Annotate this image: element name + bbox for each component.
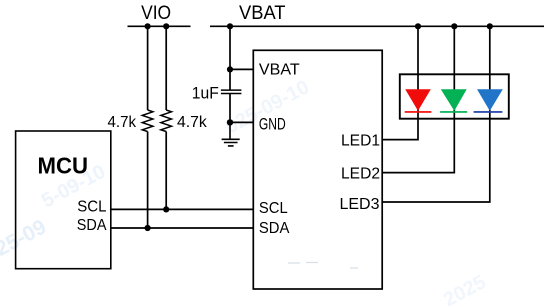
wire LED2 bbox=[382, 26, 454, 172]
LED D1 red bbox=[405, 89, 431, 111]
LED D2 green bbox=[441, 89, 467, 111]
svg-text:LED2: LED2 bbox=[341, 166, 380, 183]
wire R1 top (x=147) bbox=[147, 26, 149, 110]
node VBAT-LED2 bbox=[451, 23, 457, 29]
svg-text:4.7k: 4.7k bbox=[177, 114, 208, 131]
svg-text:GND: GND bbox=[259, 116, 286, 134]
capacitor C1 plates bbox=[221, 90, 242, 93]
wire VBAT pin bbox=[230, 68, 253, 70]
wire SCL bus bbox=[111, 208, 254, 210]
op-amp U1 (LED driver IC) box bbox=[253, 50, 382, 289]
MCU box bbox=[16, 131, 111, 269]
wire LED3 bbox=[382, 26, 490, 202]
svg-text:MCU: MCU bbox=[38, 152, 89, 178]
node VIO-R2 bbox=[163, 23, 169, 29]
ground bbox=[222, 122, 240, 145]
svg-text:SDA: SDA bbox=[259, 220, 290, 237]
wire cap bottom to gnd node bbox=[229, 94, 231, 123]
wire R2 top (x=165) bbox=[165, 26, 167, 110]
node VBAT pin bbox=[227, 66, 233, 72]
wire R2 bottom to SCL bbox=[165, 132, 167, 210]
LED module box bbox=[400, 74, 509, 118]
svg-text:LED1: LED1 bbox=[341, 132, 380, 149]
wire VIO rail bbox=[128, 25, 191, 27]
LED D3 blue bbox=[477, 89, 503, 111]
svg-text:VBAT: VBAT bbox=[239, 2, 286, 24]
resistor R1 4.7k bbox=[142, 110, 153, 132]
node VBAT-LED3 bbox=[487, 23, 493, 29]
node VBAT-C1 bbox=[227, 23, 233, 29]
svg-text:4.7k: 4.7k bbox=[108, 114, 137, 131]
svg-text:VBAT: VBAT bbox=[259, 62, 300, 79]
wire VBAT drop to cap bbox=[229, 26, 231, 89]
svg-text:VIO: VIO bbox=[141, 2, 171, 24]
svg-text:SDA: SDA bbox=[77, 217, 107, 234]
node SDA-R1 bbox=[145, 225, 151, 231]
node SCL-R2 bbox=[163, 206, 169, 212]
wire LED1 bbox=[382, 26, 418, 139]
svg-text:SCL: SCL bbox=[77, 199, 106, 216]
node VBAT-LED1 bbox=[415, 23, 421, 29]
wire SDA bus bbox=[111, 227, 254, 229]
resistor R2 4.7k bbox=[161, 110, 172, 132]
node VIO-R1 bbox=[145, 23, 151, 29]
svg-text:1uF: 1uF bbox=[192, 84, 219, 102]
svg-text:LED3: LED3 bbox=[340, 196, 380, 213]
wire VBAT rail bbox=[210, 25, 544, 27]
wire R1 bottom to SDA bbox=[147, 132, 149, 229]
svg-text:SCL: SCL bbox=[259, 200, 288, 217]
wire GND pin bbox=[230, 121, 253, 123]
node GND pin bbox=[227, 119, 233, 125]
